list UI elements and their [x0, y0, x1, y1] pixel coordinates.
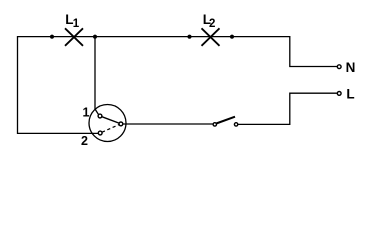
- svg-text:1: 1: [73, 18, 80, 30]
- svg-text:L: L: [346, 87, 354, 102]
- svg-text:2: 2: [81, 134, 88, 148]
- svg-text:2: 2: [209, 18, 215, 30]
- svg-text:1: 1: [83, 106, 90, 120]
- svg-text:N: N: [346, 60, 356, 75]
